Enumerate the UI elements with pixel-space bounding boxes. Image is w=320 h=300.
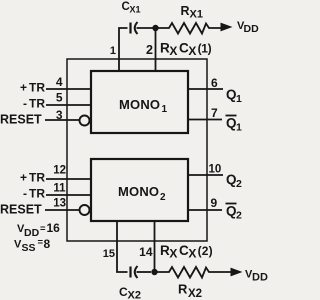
svg-text:12: 12 <box>53 165 66 177</box>
svg-text:TR: TR <box>29 171 45 185</box>
svg-text:R: R <box>178 282 188 297</box>
svg-text:RESET: RESET <box>0 203 42 217</box>
VDD arrow terminal (bottom) <box>231 268 268 283</box>
svg-text:TR: TR <box>29 81 45 95</box>
svg-text:MONO: MONO <box>119 97 160 112</box>
svg-text:MONO: MONO <box>118 184 159 199</box>
svg-text:DD: DD <box>244 23 260 35</box>
wire pin 1 to CX1 <box>119 28 128 71</box>
capacitor label CX1 <box>122 1 141 15</box>
input RESET pin 13 (MONO2) <box>0 198 79 217</box>
svg-text:+: + <box>20 81 27 95</box>
svg-text:X: X <box>188 44 196 58</box>
output Q2 pin 10 <box>188 164 242 191</box>
svg-text:13: 13 <box>53 198 66 210</box>
svg-text:4: 4 <box>56 75 63 89</box>
junction node pin2/RX1/CX1 <box>152 25 158 31</box>
wire pin 14 <box>154 221 156 272</box>
svg-text:Q: Q <box>226 172 237 187</box>
note VDD = 16 <box>17 221 60 239</box>
svg-text:-: - <box>23 97 27 111</box>
svg-text:(2): (2) <box>198 244 213 258</box>
svg-text:X1: X1 <box>190 9 203 21</box>
svg-text:Q: Q <box>226 116 237 131</box>
svg-text:TR: TR <box>29 187 45 201</box>
svg-text:2: 2 <box>146 43 153 57</box>
svg-text:10: 10 <box>209 164 222 176</box>
svg-text:1: 1 <box>110 45 116 57</box>
svg-text:16: 16 <box>47 221 61 235</box>
svg-text:1: 1 <box>236 122 242 134</box>
capacitor CX1 <box>131 22 154 34</box>
svg-text:14: 14 <box>139 245 153 259</box>
resistor label RX2 <box>178 282 202 300</box>
monostable MONO1 <box>91 71 188 133</box>
wire pin 15 to CX2 <box>117 221 128 272</box>
svg-text:X: X <box>169 44 177 58</box>
svg-text:R: R <box>181 4 190 18</box>
net label RX CX (2) <box>160 243 213 261</box>
svg-text:2: 2 <box>236 210 242 222</box>
svg-text:1: 1 <box>236 93 242 105</box>
svg-text:7: 7 <box>211 106 218 120</box>
RESET2 inverter bubble <box>80 205 90 215</box>
input -TR pin 11 (MONO2) <box>23 183 91 201</box>
svg-text:2: 2 <box>236 178 242 190</box>
svg-text:9: 9 <box>211 196 218 210</box>
svg-text:Q: Q <box>226 204 237 219</box>
svg-text:=: = <box>40 224 46 235</box>
output Q1 pin 6 <box>188 76 242 105</box>
input RESET pin 3 (MONO1) <box>0 108 79 127</box>
wire pin 2 <box>155 28 157 71</box>
input +TR pin 4 (MONO1) <box>20 75 91 95</box>
svg-text:-: - <box>23 187 27 201</box>
svg-text:1: 1 <box>162 104 168 115</box>
svg-text:15: 15 <box>103 248 115 260</box>
svg-text:X1: X1 <box>130 5 141 15</box>
svg-text:6: 6 <box>211 76 218 90</box>
monostable MONO2 <box>91 159 188 221</box>
svg-text:(1): (1) <box>198 42 212 56</box>
svg-text:5: 5 <box>56 91 63 105</box>
VDD arrow terminal (top) <box>221 20 259 35</box>
RESET1 inverter bubble <box>80 116 90 126</box>
svg-text:X2: X2 <box>128 290 141 300</box>
IC package outline <box>67 59 207 241</box>
svg-text:8: 8 <box>44 237 51 251</box>
capacitor label CX2 <box>119 285 141 300</box>
svg-text:DD: DD <box>252 272 268 284</box>
output Q1-bar pin 7 <box>188 106 242 134</box>
capacitor CX2 <box>131 266 152 278</box>
svg-text:SS: SS <box>22 242 36 254</box>
note VSS = 8 <box>14 237 51 254</box>
svg-text:RESET: RESET <box>0 113 42 127</box>
input -TR pin 5 (MONO1) <box>23 91 91 111</box>
resistor label RX1 <box>181 4 203 21</box>
svg-text:Q: Q <box>226 87 237 102</box>
svg-text:X: X <box>188 247 196 261</box>
junction node pin14/RX2/CX2 <box>151 269 157 275</box>
svg-text:TR: TR <box>29 97 45 111</box>
svg-text:+: + <box>20 171 27 185</box>
resistor RX2 <box>155 267 233 278</box>
svg-text:3: 3 <box>56 108 63 122</box>
svg-text:2: 2 <box>160 192 166 203</box>
net label RX CX (1) <box>160 41 212 59</box>
svg-text:11: 11 <box>53 183 66 195</box>
output Q2-bar pin 9 <box>188 196 242 222</box>
resistor RX1 <box>156 23 222 34</box>
svg-text:X: X <box>169 247 177 261</box>
svg-text:X2: X2 <box>188 288 202 300</box>
input +TR pin 12 (MONO2) <box>20 165 91 185</box>
